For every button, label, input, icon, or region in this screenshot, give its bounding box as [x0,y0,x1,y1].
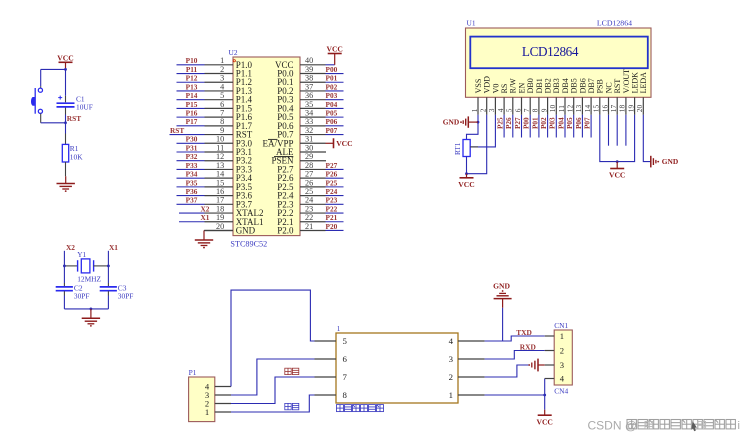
svg-text:X2: X2 [66,243,75,252]
wire net RST [170,126,205,135]
wire net P03 [549,115,557,138]
power VCC (U2 pin 40) [326,45,343,65]
pin 20 (LEDA) [635,72,648,115]
pin 4 (RS) [496,84,509,115]
svg-text:1: 1 [205,407,209,417]
pin 14 (DB7) [583,78,596,115]
pin 15 (PSB) [592,79,605,115]
svg-text:13: 13 [574,105,583,113]
pushbutton switch [31,86,43,123]
wire net P04 [326,100,344,109]
svg-text:P26: P26 [326,170,338,179]
svg-text:DB5: DB5 [570,78,579,93]
pin 27 (P2.6) right [277,170,325,184]
wire net P04 [557,115,565,138]
svg-text:24: 24 [305,196,313,205]
pin 13 (DB6) [574,78,587,115]
svg-text:19: 19 [216,213,224,222]
pin 7 (P1.6) left [205,109,253,123]
svg-text:33: 33 [305,117,313,126]
pin 10 (P3.0) left [205,135,253,149]
wire ground to TXD line [502,308,504,341]
pin 6 (module left) [315,354,348,364]
svg-text:12: 12 [566,105,575,113]
wire net P20 [326,222,344,231]
svg-text:10: 10 [216,135,224,144]
pin 4 (CN1) [545,374,565,384]
pin 8 (P1.7) left [205,117,253,131]
svg-text:9: 9 [220,126,224,135]
svg-text:V0: V0 [491,84,500,94]
power VCC (LCD backlight) [609,162,625,180]
capacitor C1 10UF [57,69,93,114]
svg-text:P00: P00 [523,117,531,129]
wire net P26 [326,170,344,179]
pin 25 (P2.4) right [277,187,325,201]
pin 2 (P1) [205,399,231,409]
wire net P12 [177,74,205,83]
pin 10 (DB3) [548,78,561,115]
wire module pin2 to CN1 pin3 [485,365,530,377]
pin 20 (GND) left [205,222,256,236]
svg-text:P35: P35 [186,178,198,187]
pin 2 (VDD) [479,76,492,115]
svg-text:P22: P22 [326,204,338,213]
op IC U2 STC89C52 body [229,48,301,249]
wire net P27 [514,115,522,138]
svg-text:18: 18 [216,204,224,213]
pin 31 (EA/VPP) right [262,135,325,149]
svg-text:P27: P27 [326,161,338,170]
wire module pin1 to CN1 pin4 and VCC [485,379,545,410]
pin 26 (P2.5) right [277,178,325,192]
svg-text:3: 3 [220,74,224,83]
pin 1 (P1.0) left [205,56,253,70]
svg-text:P03: P03 [326,91,338,100]
pin 39 (P0.0) right [277,65,325,79]
svg-text:40: 40 [305,56,313,65]
svg-text:15: 15 [216,178,224,187]
svg-text:Y1: Y1 [77,250,86,259]
wire module pin4 to CN1 pin1 (net TXD) [485,336,545,341]
pin 5 (R/W) [505,78,518,115]
svg-text:1: 1 [337,325,341,333]
pin 1 (VSS) [470,79,483,115]
svg-text:P34: P34 [186,170,198,179]
svg-text:37: 37 [305,82,313,91]
wire module pin3 to CN1 pin2 (net RXD) [485,351,545,360]
pin 6 (EN) [513,83,526,115]
svg-text:4: 4 [560,374,565,384]
svg-text:8: 8 [343,390,348,400]
svg-text:DB1: DB1 [535,78,544,93]
wire P1 pin4 to module pin5 [231,290,315,386]
svg-text:PSB: PSB [596,79,605,93]
pin 3 (CN1) [545,360,564,370]
svg-text:DB0: DB0 [526,78,535,93]
svg-text:P26: P26 [505,117,513,129]
pin 7 (module left) [315,372,348,382]
junction [465,172,468,175]
wire pins 15,19 to VCC [600,115,635,162]
pin 33 (P0.6) right [277,117,325,131]
net label 火线 [285,368,299,374]
wire pin3 V0 to wiper [470,115,495,147]
svg-text:31: 31 [305,135,313,144]
svg-text:30PF: 30PF [118,291,134,300]
svg-text:R/W: R/W [509,78,518,94]
svg-text:GND: GND [662,157,678,166]
wire [41,69,66,86]
svg-text:3: 3 [449,354,454,364]
svg-text:5: 5 [343,336,348,346]
pin 22 (P2.1) right [277,213,325,227]
potentiometer RT1 [454,140,478,174]
module 电能采集模块 body [336,325,458,403]
svg-text:CSDN @: CSDN @ [588,419,638,433]
svg-text:10: 10 [548,105,557,113]
svg-text:RXD: RXD [520,343,536,352]
junction [477,121,480,124]
svg-text:U2: U2 [229,48,238,57]
wire P1 pin2 to module pin7 (net 火线) [231,377,315,404]
svg-text:27: 27 [305,170,313,179]
svg-text:NC: NC [604,82,613,93]
wire net P30 [177,135,205,144]
svg-text:P16: P16 [186,109,198,118]
svg-text:P20: P20 [326,222,338,231]
junction [90,308,93,311]
svg-text:28: 28 [305,161,313,170]
svg-text:1: 1 [470,108,479,112]
pin 19 (XTAL1) left [205,213,264,227]
svg-text:P14: P14 [186,91,198,100]
svg-text:RST: RST [613,79,622,94]
junction [543,394,546,397]
junction [63,265,66,268]
wire net P01 [531,115,539,138]
svg-text:23: 23 [305,204,313,213]
svg-text:P37: P37 [186,196,198,205]
wire [64,308,108,310]
pin 29 (PSEN) right [271,152,326,166]
svg-text:P1: P1 [189,368,197,377]
svg-text:7: 7 [343,372,348,382]
pin 30 (ALE) right [276,143,326,157]
svg-text:P24: P24 [326,187,338,196]
pin 4 (P1) [205,382,231,392]
pin 8 (module left) [315,390,348,400]
wire net P37 [177,196,205,205]
svg-text:TXD: TXD [516,328,532,337]
wire net P11 [177,65,205,74]
ground (reset circuit) [57,176,75,192]
svg-text:5: 5 [505,108,514,112]
pin 21 (P2.0) right [277,222,325,236]
pin 1 (module right) [449,390,485,400]
junction [616,160,619,163]
svg-text:P00: P00 [326,65,338,74]
svg-text:P23: P23 [326,196,338,205]
wire net X1 [179,213,210,222]
pin 5 (module left) [315,336,348,346]
svg-text:U1: U1 [467,19,476,28]
svg-text:P31: P31 [186,143,198,152]
wire net P00 [523,115,531,138]
pin 1 (P1) [205,407,231,417]
svg-text:LCD12864: LCD12864 [522,44,579,59]
pin 37 (P0.2) right [277,82,325,96]
wire P1 pin3 to module pin6 [231,359,315,395]
wire net P17 [177,117,205,126]
svg-text:20: 20 [216,222,224,231]
ground (LCD LEDA) [651,156,678,168]
wire net P13 [177,82,205,91]
wire pin2 VDD [467,115,487,174]
svg-text:P05: P05 [326,109,338,118]
svg-text:2: 2 [560,346,564,356]
svg-text:CN4: CN4 [554,386,568,395]
wire pin20 LEDA to ground [643,115,651,162]
svg-text:34: 34 [305,109,313,118]
pin 3 (P1) [205,390,231,400]
wire pins 16,17,18 stubs [609,115,626,146]
svg-text:P05: P05 [566,117,574,129]
svg-text:P13: P13 [186,82,198,91]
power VCC (RT1) [458,174,474,189]
svg-text:12: 12 [216,152,224,161]
pin 4 (P1.3) left [205,82,253,96]
net label 零线 [285,403,299,409]
svg-text:EN: EN [517,83,526,94]
svg-text:P30: P30 [186,135,198,144]
junction [64,68,67,71]
ground (module serial) [493,281,512,308]
svg-text:P36: P36 [186,187,198,196]
wire net P36 [177,187,205,196]
svg-text:P2.0: P2.0 [277,225,294,235]
svg-text:6: 6 [343,354,348,364]
power VCC (U2 pin 31 EA/VPP) [326,138,353,148]
svg-text:i: i [738,420,740,432]
wire net P02 [540,115,548,138]
wire net P27 [326,161,344,170]
svg-text:P33: P33 [186,161,198,170]
svg-text:P01: P01 [326,74,338,83]
wire net P34 [177,170,205,179]
pin 2 (module right) [449,372,485,382]
capacitor C3 30PF [100,283,134,309]
pin 2 (CN1) [545,346,564,356]
svg-text:2: 2 [449,372,453,382]
svg-text:4: 4 [220,82,224,91]
pin 40 (VCC) right [275,56,326,70]
wire net P06 [575,115,583,138]
pin 8 (DB1) [531,78,544,115]
svg-text:11: 11 [557,105,566,112]
display U1 LCD12864 body [466,19,652,98]
svg-text:P01: P01 [531,117,539,129]
svg-text:VCC: VCC [609,170,625,179]
wire pin1 VSS to ground [467,115,479,140]
wire net P32 [177,152,205,161]
svg-text:DB2: DB2 [544,78,553,93]
svg-text:7: 7 [220,109,224,118]
wire net P07 [326,126,344,135]
svg-text:X1: X1 [200,213,209,222]
wire net P15 [177,100,205,109]
wire net P31 [177,143,205,152]
svg-text:2: 2 [479,108,488,112]
svg-text:P25: P25 [326,178,338,187]
svg-text:17: 17 [609,105,618,113]
wire net P05 [566,115,574,138]
resistor R1 10K [62,134,83,177]
svg-text:16: 16 [216,187,224,196]
svg-text:29: 29 [305,152,313,161]
svg-text:X1: X1 [109,243,118,252]
svg-text:VDD: VDD [483,76,492,94]
pin 34 (P0.5) right [277,109,325,123]
svg-text:7: 7 [522,108,531,112]
svg-text:P07: P07 [584,117,592,129]
svg-text:DB6: DB6 [578,78,587,93]
pin 17 (RST) [609,79,622,115]
svg-text:P11: P11 [186,65,198,74]
svg-text:LEDK: LEDK [631,72,640,94]
pin 12 (DB5) [566,78,579,115]
svg-text:6: 6 [513,108,522,112]
svg-text:30PF: 30PF [74,291,90,300]
svg-text:P02: P02 [540,117,548,129]
pin 15 (P3.5) left [205,178,253,192]
svg-text:RT1: RT1 [454,142,462,155]
svg-text:GND: GND [493,281,510,290]
svg-text:2: 2 [220,65,224,74]
svg-text:36: 36 [305,91,313,100]
pin 18 (XTAL2) left [205,204,264,218]
ground (U2 GND pin) [195,230,213,248]
svg-text:GND: GND [443,118,459,127]
svg-text:11: 11 [216,143,224,152]
svg-text:26: 26 [305,178,313,187]
svg-text:3: 3 [560,360,564,370]
svg-text:1: 1 [560,331,564,341]
svg-text:P04: P04 [326,100,338,109]
junction [64,121,67,124]
pin 2 (P1.1) left [205,65,252,79]
wire net P16 [177,109,205,118]
svg-text:P03: P03 [549,117,557,129]
svg-text:VCC: VCC [336,139,352,148]
pin 14 (P3.4) left [205,170,253,184]
wire net P06 [326,117,344,126]
svg-text:35: 35 [305,100,313,109]
svg-text:P06: P06 [326,117,338,126]
svg-text:LCD12864: LCD12864 [597,19,632,28]
svg-text:P15: P15 [186,100,198,109]
wire net P14 [177,91,205,100]
svg-text:10K: 10K [70,152,83,161]
pin 3 (V0) [487,84,500,115]
svg-text:19: 19 [626,105,635,113]
pin 13 (P3.3) left [205,161,253,175]
svg-text:9: 9 [539,108,548,112]
pin 18 (V/OUT) [618,69,631,115]
wire net P02 [326,82,344,91]
wire net P25 [497,115,505,138]
svg-text:22: 22 [305,213,313,222]
svg-text:10UF: 10UF [76,103,93,112]
svg-text:RST: RST [67,114,81,123]
wire net P26 [505,115,513,138]
wire net P24 [326,187,344,196]
power VCC (reset circuit) [57,54,73,70]
pin 17 (P3.7) left [205,196,253,210]
svg-text:X2: X2 [200,204,209,213]
svg-text:P06: P06 [575,117,583,129]
svg-text:P04: P04 [557,117,565,129]
connector CN1 body [554,321,572,396]
pin 1 (CN1) [545,331,564,341]
pin 35 (P0.4) right [277,100,325,114]
pin 16 (P3.6) left [205,187,253,201]
wire pin20 to ground [204,229,233,231]
pin 19 (LEDK) [626,72,639,115]
svg-text:VCC: VCC [57,54,73,63]
pin 23 (P2.2) right [277,204,325,218]
wire net P22 [326,204,344,213]
svg-text:VCC: VCC [536,418,552,427]
svg-text:14: 14 [583,105,592,113]
svg-text:P25: P25 [497,117,505,129]
ground (crystal) [82,309,100,327]
svg-text:20: 20 [635,105,644,113]
wire net P33 [177,161,205,170]
svg-text:15: 15 [592,105,601,113]
wire net P01 [326,74,344,83]
svg-text:RS: RS [500,84,509,94]
wire net P10 [177,56,205,65]
svg-text:P27: P27 [514,117,522,129]
pin 16 (NC) [600,82,613,115]
wire net P23 [326,196,344,205]
svg-text:30: 30 [305,143,313,152]
svg-text:8: 8 [220,117,224,126]
connector P1 body [189,368,215,422]
pin 11 (P3.1) left [205,143,252,157]
pin 28 (P2.7) right [277,161,325,175]
svg-text:P32: P32 [186,152,198,161]
pin 36 (P0.3) right [277,91,325,105]
pin 4 (module right) [449,336,485,346]
pin 12 (P3.2) left [205,152,252,166]
wire net X2 [179,204,210,213]
svg-text:VCC: VCC [326,45,342,54]
svg-text:14: 14 [216,170,224,179]
svg-text:4: 4 [449,336,454,346]
svg-text:STC89C52: STC89C52 [230,240,267,249]
wire net P05 [326,109,344,118]
ground (LCD VSS) [443,116,478,127]
wire [65,115,67,134]
junction [107,265,110,268]
svg-text:1: 1 [220,56,224,65]
svg-text:CN1: CN1 [554,321,568,330]
svg-text:DB3: DB3 [552,78,561,93]
pin 9 (DB2) [539,78,552,115]
capacitor C2 30PF [56,283,90,309]
